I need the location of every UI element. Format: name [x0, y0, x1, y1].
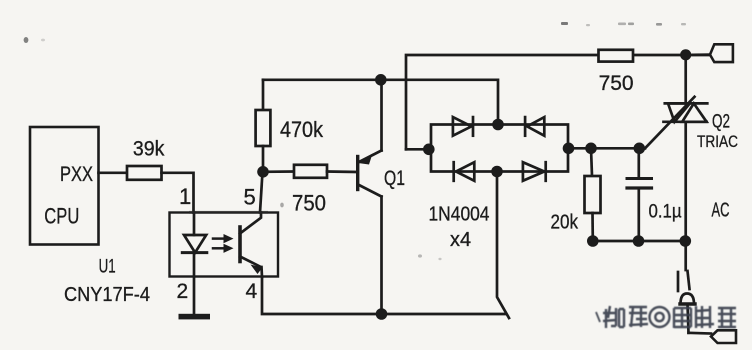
- bottom rail right: [593, 240, 686, 243]
- svg-text:CNY17F-4: CNY17F-4: [64, 284, 150, 306]
- opto LED anode lead: [193, 213, 196, 236]
- svg-text:750: 750: [599, 72, 634, 95]
- ground: [179, 314, 211, 320]
- node rail B / Q1: [375, 74, 387, 86]
- triac Q2: [684, 55, 687, 103]
- opto emitter to pin 4: [240, 257, 261, 267]
- transistor Q1: [356, 157, 359, 190]
- svg-text:x4: x4: [450, 229, 471, 251]
- wire bridge right to gate: [568, 147, 645, 150]
- wire 39k to opto pin1: [162, 173, 194, 213]
- rail B horizontal: [263, 80, 498, 125]
- wire pin4 bottom horizontal: [262, 277, 505, 314]
- glyph 4: [696, 306, 714, 328]
- glyph 3: [674, 308, 691, 328]
- diode D4 bottom-right: [523, 162, 544, 181]
- node rail A / triac: [680, 49, 691, 60]
- diode D2 top-right: [527, 117, 544, 136]
- svg-text:750: 750: [292, 191, 326, 216]
- svg-text:Q2: Q2: [712, 112, 730, 133]
- terminal bottom right: [711, 330, 736, 343]
- node cap top: [634, 143, 646, 155]
- svg-text:TRIAC: TRIAC: [697, 132, 738, 151]
- svg-text:2: 2: [177, 280, 189, 303]
- svg-text:4: 4: [246, 280, 258, 303]
- svg-text:AC: AC: [712, 200, 730, 222]
- node bridge top center: [492, 119, 504, 131]
- svg-text:Q1: Q1: [384, 167, 405, 190]
- paper specks: [24, 22, 686, 260]
- svg-text:1: 1: [179, 184, 191, 209]
- node bridge right: [563, 143, 575, 155]
- node cap bottom: [633, 235, 645, 247]
- svg-text:PXX: PXX: [60, 163, 93, 186]
- connector / fuse bottom: [677, 272, 680, 291]
- node 20k top: [585, 143, 597, 155]
- wire Q1 top to rail B: [380, 80, 383, 151]
- diode D3 bottom-left: [456, 162, 474, 181]
- resistor 470k: [256, 110, 271, 146]
- terminal top right: [710, 44, 733, 62]
- glyph 5: [718, 308, 736, 327]
- opto phototransistor: [238, 227, 242, 262]
- resistor 20k: [585, 176, 601, 213]
- optocoupler U1 CNY17F-4 box: [170, 213, 279, 277]
- glyph @: [650, 307, 670, 327]
- wire bridge bottom down: [497, 172, 509, 319]
- svg-text:20k: 20k: [551, 212, 579, 234]
- svg-text:39k: 39k: [133, 138, 165, 161]
- node triac line: [680, 235, 692, 247]
- svg-text:470k: 470k: [280, 117, 324, 142]
- resistor 750 top: [599, 50, 634, 62]
- wire 20k: [591, 148, 592, 176]
- wire node A to resistor 750: [263, 170, 294, 173]
- opto LED: [184, 235, 206, 253]
- node bridge left: [423, 144, 435, 156]
- triac gate wire: [645, 97, 695, 149]
- opto light arrows: [213, 234, 234, 253]
- svg-text:U1: U1: [99, 257, 116, 278]
- wire railA down to bridge left: [406, 148, 429, 151]
- resistor 39k: [127, 166, 162, 180]
- svg-text:5: 5: [244, 185, 256, 210]
- CPU block: [30, 127, 99, 245]
- wire 470k branch: [262, 80, 265, 110]
- node 20k bottom: [587, 235, 599, 247]
- resistor 750: [294, 165, 327, 178]
- svg-text:0.1µ: 0.1µ: [649, 201, 682, 223]
- opto LED cathode lead to pin 2: [193, 253, 196, 315]
- stray mark: [596, 312, 600, 322]
- svg-text:1N4004: 1N4004: [429, 204, 490, 226]
- node emitter bottom: [376, 308, 388, 320]
- wire pin5 to node A: [260, 172, 263, 213]
- watermark zhihu: [596, 306, 736, 328]
- node A junction: [257, 166, 269, 178]
- wire CPU PXX to R 39k: [99, 171, 128, 174]
- opto collector to pin 5: [240, 213, 261, 234]
- node bridge bottom center: [491, 166, 503, 178]
- glyph 2: [629, 307, 648, 327]
- glyph 1: [603, 306, 616, 328]
- diode D1 top-left: [453, 117, 472, 136]
- wire Q1 bottom down: [380, 197, 383, 315]
- svg-text:CPU: CPU: [44, 204, 79, 229]
- bridge rectangle wires: [431, 125, 568, 172]
- capacitor 0.1u: [637, 148, 640, 178]
- rail A top: [406, 55, 599, 149]
- wire 750 to Q1 base: [327, 170, 357, 173]
